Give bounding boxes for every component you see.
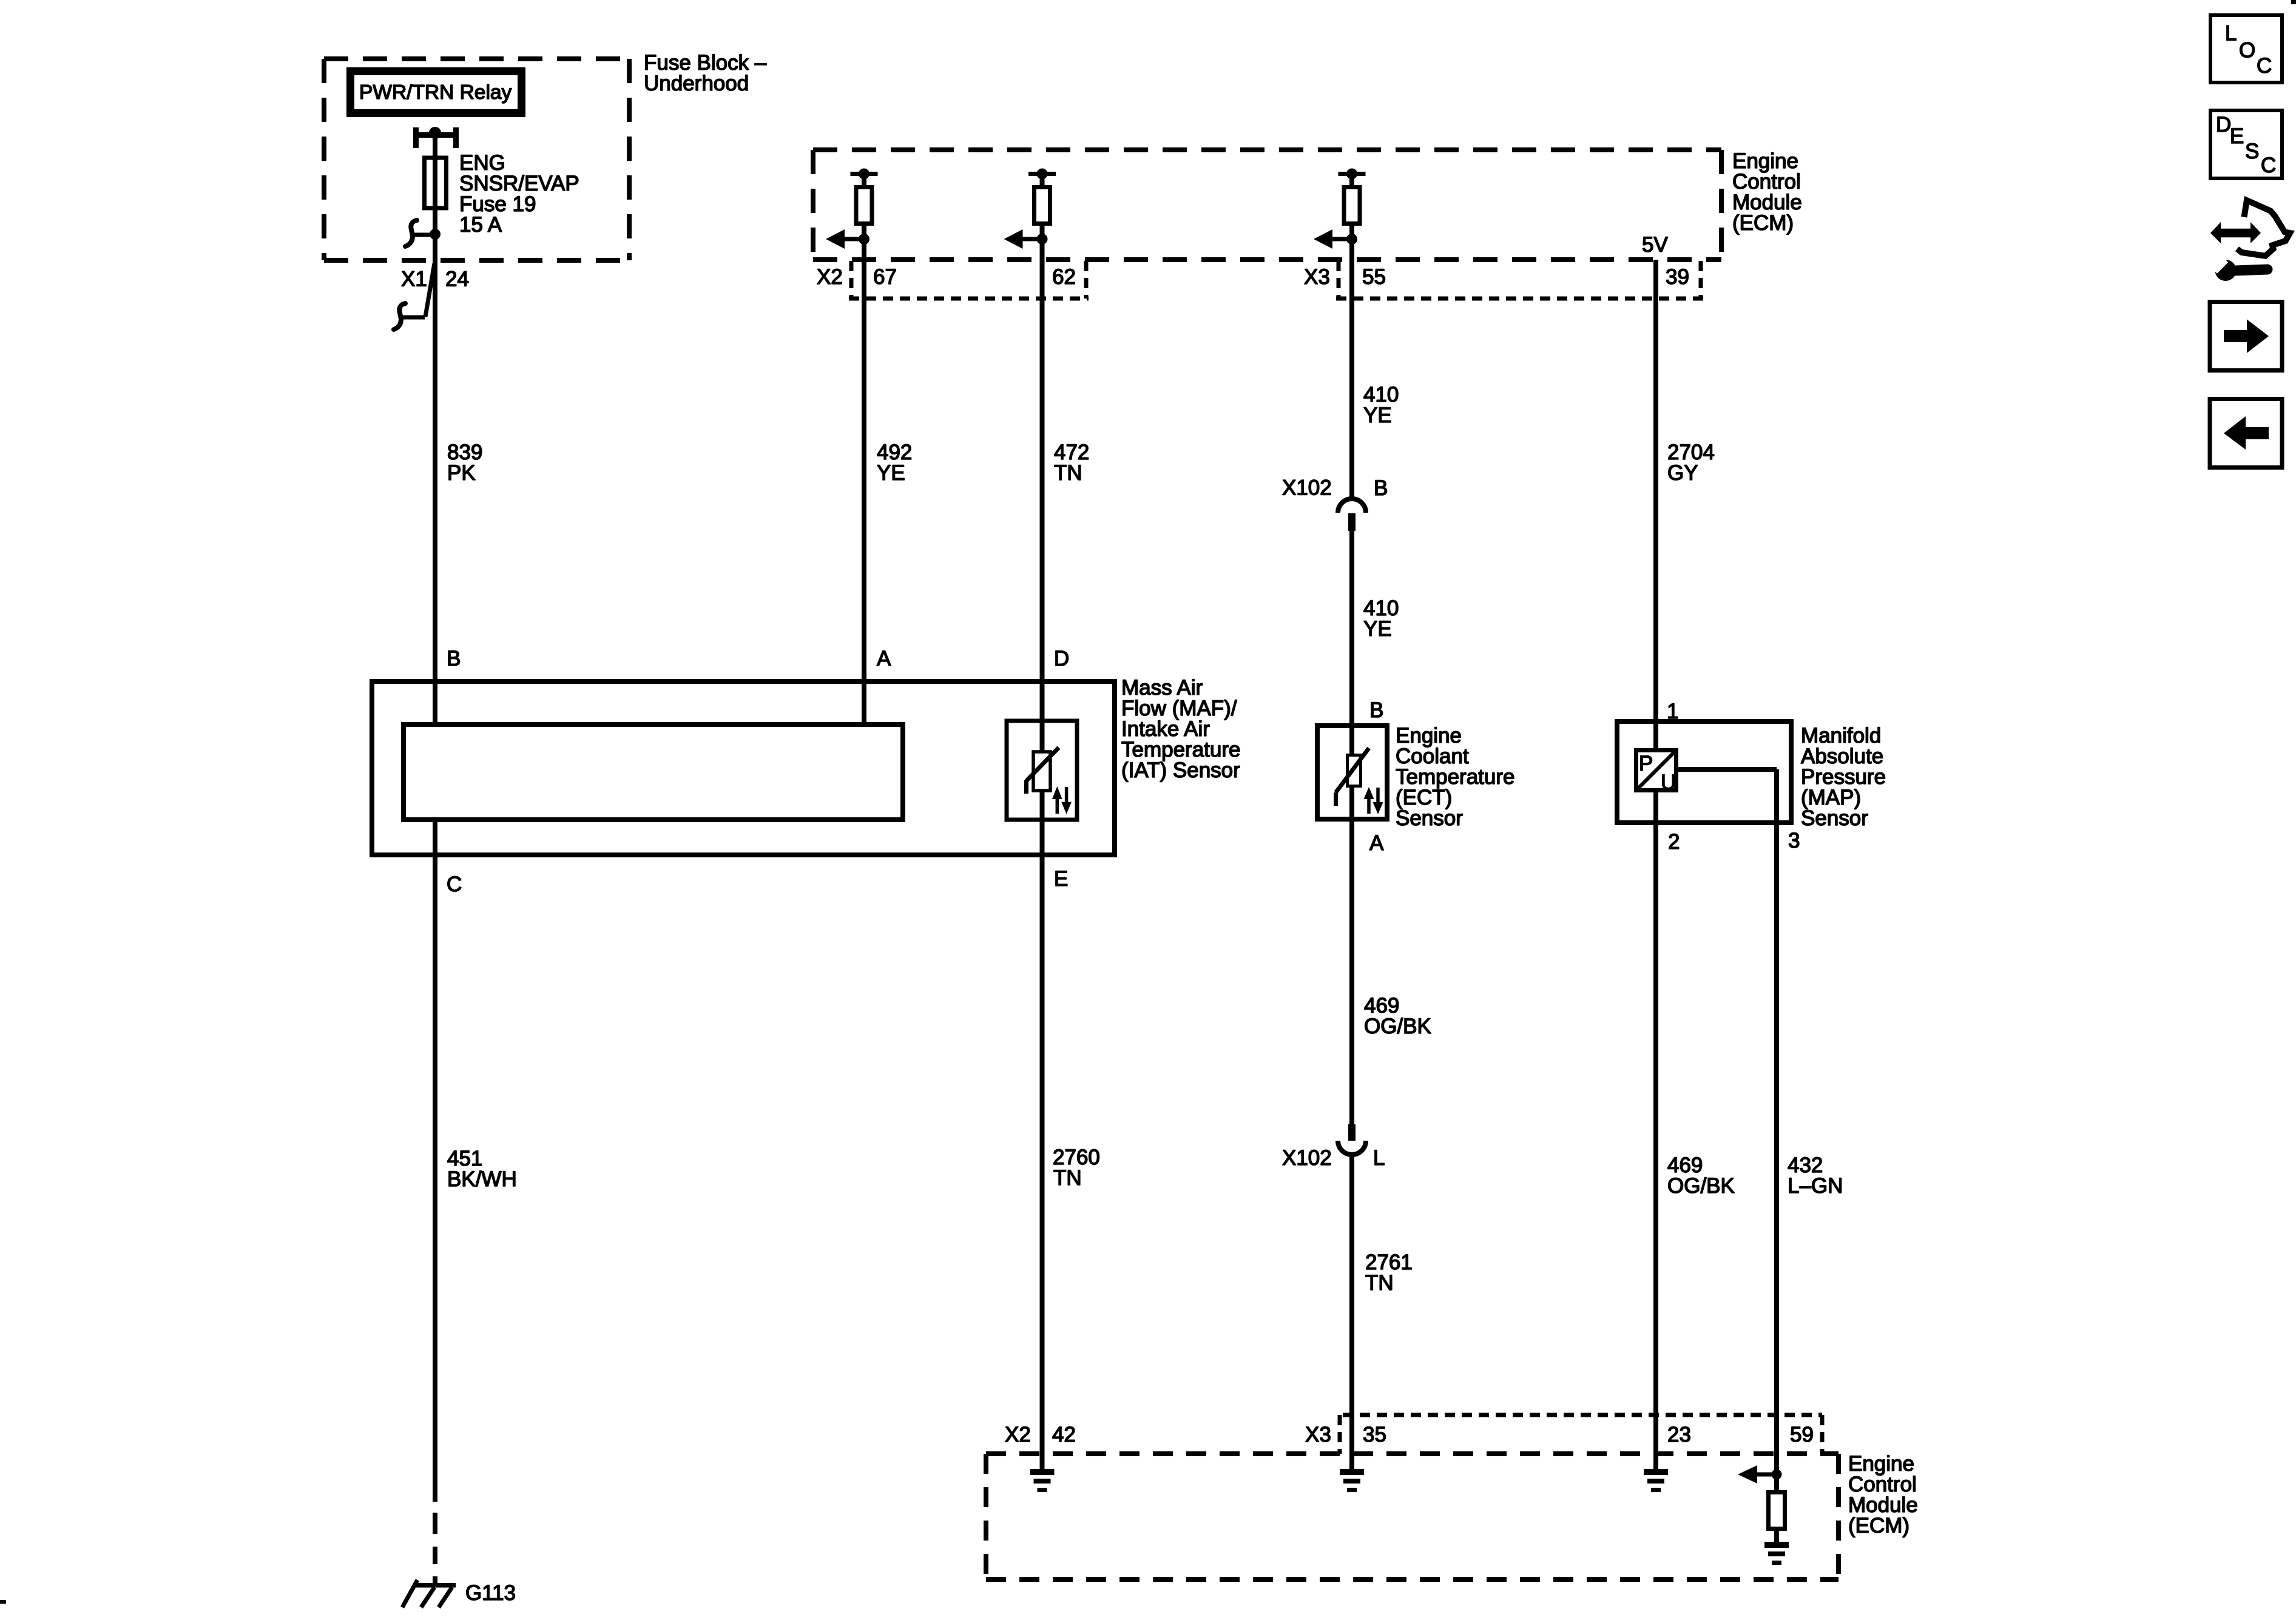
- svg-text:A: A: [877, 647, 891, 670]
- svg-text:Sensor: Sensor: [1396, 806, 1463, 830]
- svg-text:C: C: [2261, 154, 2276, 177]
- svg-text:(ECM): (ECM): [1848, 1514, 1909, 1538]
- svg-text:E: E: [1054, 867, 1068, 891]
- svg-text:G113: G113: [465, 1581, 516, 1605]
- svg-text:3: 3: [1788, 829, 1800, 852]
- svg-text:59: 59: [1790, 1423, 1814, 1447]
- svg-text:62: 62: [1052, 265, 1076, 289]
- svg-text:B: B: [1374, 476, 1388, 500]
- svg-text:X1: X1: [401, 268, 427, 291]
- svg-text:TN: TN: [1365, 1271, 1394, 1295]
- svg-text:A: A: [1369, 831, 1384, 855]
- svg-text:(ECM): (ECM): [1732, 211, 1794, 235]
- svg-text:42: 42: [1052, 1423, 1076, 1447]
- svg-text:U: U: [1661, 771, 1676, 794]
- svg-text:PK: PK: [447, 461, 476, 485]
- svg-text:D: D: [1054, 647, 1069, 670]
- svg-text:TN: TN: [1053, 1166, 1082, 1190]
- svg-text:L: L: [1373, 1146, 1385, 1170]
- svg-text:24: 24: [445, 268, 469, 291]
- svg-text:55: 55: [1362, 265, 1386, 289]
- svg-text:TN: TN: [1054, 461, 1082, 485]
- svg-text:GY: GY: [1667, 461, 1698, 485]
- svg-text:D: D: [2216, 113, 2231, 137]
- svg-text:BK/WH: BK/WH: [447, 1167, 517, 1191]
- svg-text:2: 2: [1668, 830, 1680, 854]
- svg-text:X102: X102: [1282, 1146, 1332, 1170]
- svg-text:YE: YE: [1363, 403, 1392, 427]
- svg-text:(IAT) Sensor: (IAT) Sensor: [1121, 758, 1240, 782]
- svg-text:L–GN: L–GN: [1788, 1174, 1843, 1198]
- svg-text:YE: YE: [877, 461, 905, 485]
- svg-text:15 A: 15 A: [459, 213, 502, 237]
- svg-text:OG/BK: OG/BK: [1667, 1174, 1735, 1198]
- svg-text:39: 39: [1666, 265, 1689, 289]
- svg-text:35: 35: [1363, 1423, 1386, 1447]
- svg-text:23: 23: [1667, 1423, 1691, 1447]
- svg-text:C: C: [447, 873, 462, 896]
- svg-text:X3: X3: [1305, 1423, 1331, 1447]
- svg-text:B: B: [1369, 698, 1383, 722]
- svg-text:5V: 5V: [1642, 233, 1668, 257]
- svg-text:PWR/TRN Relay: PWR/TRN Relay: [359, 81, 512, 104]
- svg-text:OG/BK: OG/BK: [1364, 1014, 1431, 1038]
- svg-text:P: P: [1639, 752, 1653, 775]
- svg-text:Sensor: Sensor: [1801, 806, 1868, 830]
- svg-text:X102: X102: [1282, 476, 1332, 500]
- svg-text:O: O: [2239, 38, 2255, 62]
- svg-text:X2: X2: [1005, 1423, 1031, 1447]
- svg-text:C: C: [2257, 54, 2272, 78]
- svg-text:X3: X3: [1304, 265, 1330, 289]
- svg-text:X2: X2: [817, 265, 843, 289]
- svg-text:67: 67: [873, 265, 897, 289]
- svg-text:S: S: [2245, 140, 2259, 163]
- svg-text:B: B: [447, 647, 461, 670]
- svg-text:L: L: [2225, 22, 2237, 46]
- svg-text:E: E: [2230, 124, 2244, 148]
- svg-text:Underhood: Underhood: [644, 72, 749, 95]
- svg-text:YE: YE: [1363, 617, 1392, 641]
